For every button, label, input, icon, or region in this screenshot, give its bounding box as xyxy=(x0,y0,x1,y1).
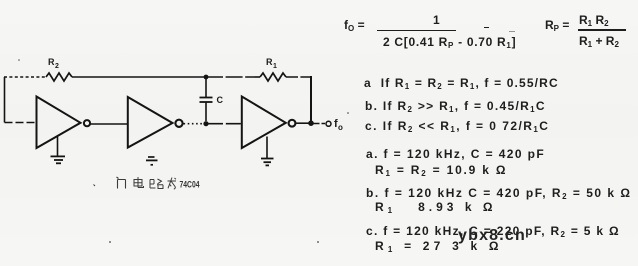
speck dots xyxy=(18,59,20,61)
label C xyxy=(217,95,224,105)
node junction dot (C top) xyxy=(204,75,209,80)
inverter U3 output bubble xyxy=(289,120,296,127)
note a2 line1 xyxy=(366,147,545,161)
formula fraction numerator 1 xyxy=(433,13,440,27)
wire: U3 output to output node xyxy=(296,122,312,124)
note b2 line1 xyxy=(366,186,632,200)
node A junction dot (C bottom) xyxy=(203,121,208,126)
wire: right vertical (R1 down to output node) xyxy=(310,76,312,123)
inverter U2 output bubble xyxy=(175,120,182,127)
inverter U1 output bubble xyxy=(84,120,90,126)
note b1 xyxy=(365,99,546,113)
wire: top line R1 to right corner xyxy=(286,76,311,78)
caption: gate circuit is 74C04 (CJK strokes drawn) xyxy=(94,177,177,189)
note c2 line1 xyxy=(366,224,620,238)
svg-text:74C04: 74C04 xyxy=(180,180,200,190)
wire: left vertical feedback xyxy=(4,77,6,123)
capacitor C xyxy=(205,79,207,97)
inverter U3 triangle xyxy=(242,97,286,149)
svg-text:1: 1 xyxy=(273,63,277,70)
note c2 line2 xyxy=(375,239,503,253)
ground (under U3) xyxy=(266,137,268,159)
wire: U2 output to node A (dotted) xyxy=(184,123,204,125)
formula fo xyxy=(344,18,365,32)
formula Rp xyxy=(545,18,569,32)
wire: U1 output to U2 input xyxy=(91,123,128,125)
svg-text:R: R xyxy=(48,57,55,67)
ground (under U2) xyxy=(148,156,155,158)
resistor R2 xyxy=(46,73,72,81)
CJK: wei xyxy=(168,178,177,190)
formula Rp denominator xyxy=(579,34,619,48)
note c1 xyxy=(365,119,549,133)
faint scan dash xyxy=(509,31,515,32)
note b2 line2 xyxy=(375,200,496,214)
label R2 xyxy=(48,57,59,70)
wire: top line R2 to C junction xyxy=(72,76,206,78)
svg-text:C: C xyxy=(217,95,224,105)
CJK: men xyxy=(117,177,126,189)
svg-text:R: R xyxy=(266,57,273,67)
wire: top line C junction to R1 xyxy=(206,76,260,78)
svg-text:2: 2 xyxy=(55,63,59,70)
formula Rp bar xyxy=(578,29,626,31)
formula stray dash xyxy=(484,27,489,28)
output terminal circle xyxy=(326,121,331,126)
svg-text:o: o xyxy=(338,123,343,132)
CJK: lu xyxy=(150,179,163,189)
note a2 line2 xyxy=(375,163,507,177)
wire: node A to U3 input xyxy=(208,123,242,125)
wire: top feedback line left segment (dotted in scan) xyxy=(4,76,46,78)
label R1 xyxy=(266,57,277,70)
wire: input to inverter 1 (dashed) xyxy=(5,122,37,124)
wire: output node to terminal xyxy=(314,123,326,125)
speck before caption xyxy=(94,185,96,187)
ground (under U1) xyxy=(57,137,59,157)
inverter U2 triangle xyxy=(128,97,173,148)
formula fraction bar xyxy=(377,30,456,32)
resistor R1 xyxy=(260,73,286,81)
label fo output xyxy=(334,118,343,132)
formula denominator xyxy=(383,35,516,49)
formula Rp numerator xyxy=(579,13,609,27)
output node junction dot xyxy=(308,120,314,126)
note a1 xyxy=(364,76,559,90)
CJK: dian xyxy=(134,177,144,188)
inverter U1 triangle xyxy=(37,97,81,149)
watermark xyxy=(458,227,526,245)
